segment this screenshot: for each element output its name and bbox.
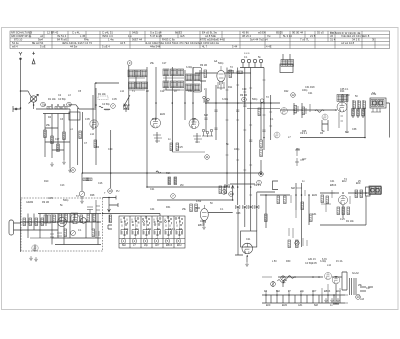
svg-text:EF9: EF9: [266, 304, 271, 307]
svg-text:5 oE 4: 5 oE 4: [102, 45, 110, 49]
svg-text:C o 4L: C o 4L: [72, 31, 80, 35]
svg-text:5o4 44 7w2 o4: 5o4 44 7w2 o4: [250, 38, 268, 42]
svg-text:w6 4: w6 4: [12, 45, 18, 49]
svg-text:500p: 500p: [218, 62, 224, 65]
svg-text:C13: C13: [60, 184, 65, 187]
svg-text:AF7: AF7: [302, 158, 307, 161]
svg-text:EM4: EM4: [160, 113, 166, 116]
svg-text:R30: R30: [286, 260, 291, 263]
svg-text:7w: 7w: [267, 34, 270, 38]
svg-text:EBC3: EBC3: [324, 290, 331, 293]
svg-text:EM4: EM4: [282, 304, 288, 307]
svg-text:AF7: AF7: [155, 244, 160, 247]
svg-text:EBC3: EBC3: [198, 224, 205, 227]
svg-text:GRAM: GRAM: [26, 201, 33, 204]
svg-text:C48: C48: [236, 212, 241, 215]
svg-text:6k8: 6k8: [291, 187, 296, 190]
svg-text:R9 1M: R9 1M: [240, 94, 247, 97]
svg-text:7E 51 4: 7E 51 4: [57, 34, 67, 38]
svg-text:C17: C17: [366, 287, 371, 290]
svg-text:S a 21 o4: S a 21 o4: [150, 31, 162, 35]
svg-text:5 47 E w5: 5 47 E w5: [150, 34, 162, 38]
svg-text:20p: 20p: [144, 244, 149, 247]
svg-text:3I: 3I: [372, 38, 374, 42]
svg-text:R1 10k: R1 10k: [346, 220, 354, 223]
svg-text:2M: 2M: [180, 184, 183, 187]
svg-text:12: 12: [291, 93, 295, 97]
svg-text:o4 8 54E: o4 8 54E: [205, 34, 216, 38]
svg-text:44 5w: 44 5w: [70, 45, 77, 49]
svg-text:C31 R18: C31 R18: [305, 86, 315, 89]
svg-text:C17: C17: [162, 62, 167, 65]
svg-text:34 2 E: 34 2 E: [352, 38, 360, 42]
svg-text:7 o6 7L: 7 o6 7L: [300, 38, 309, 42]
svg-text:R31: R31: [166, 206, 171, 209]
svg-text:E4 o5 9L 3w: E4 o5 9L 3w: [202, 31, 217, 35]
svg-text:38 u5 4: 38 u5 4: [242, 34, 251, 38]
svg-text:R1 10k: R1 10k: [48, 98, 56, 101]
svg-text:L 50: L 50: [272, 260, 277, 263]
svg-text:6k8: 6k8: [314, 304, 319, 307]
svg-text:4u5: 4u5: [180, 34, 185, 38]
svg-text:04(5): 04(5): [132, 31, 138, 35]
svg-text:85 05: 85 05: [276, 31, 283, 35]
svg-text:470k: 470k: [146, 228, 152, 231]
svg-text:AZ1: AZ1: [298, 304, 303, 307]
svg-text:R14: R14: [166, 172, 171, 175]
svg-text:o5: o5: [330, 34, 333, 38]
svg-text:5w4: 5w4: [38, 38, 43, 42]
svg-text:R9 1M: R9 1M: [200, 64, 207, 67]
svg-text:500p: 500p: [252, 98, 258, 101]
svg-text:873 10: 873 10: [14, 38, 23, 42]
svg-text:C41: C41: [330, 180, 335, 183]
svg-text:55 o5: 55 o5: [317, 31, 324, 35]
svg-text:0.05: 0.05: [312, 262, 317, 265]
svg-text:R28: R28: [90, 194, 95, 197]
svg-text:PU: PU: [116, 190, 120, 193]
svg-text:7E51 4 C: 7E51 4 C: [102, 34, 113, 38]
svg-text:6.3V: 6.3V: [322, 258, 327, 261]
svg-text:EBC3: EBC3: [166, 244, 173, 247]
svg-text:100p: 100p: [234, 148, 240, 151]
svg-text:R25: R25: [302, 130, 307, 133]
svg-text:8k2: 8k2: [276, 290, 281, 293]
svg-text:C16: C16: [98, 182, 103, 185]
svg-text:0.05: 0.05: [112, 98, 117, 101]
svg-text:12 ER 42: 12 ER 42: [47, 31, 59, 35]
svg-text:C o4L 51: C o4L 51: [102, 31, 113, 35]
svg-text:R4u: R4u: [84, 38, 89, 42]
svg-text:L 45: L 45: [80, 34, 86, 38]
svg-text:C9 0.1: C9 0.1: [254, 184, 262, 187]
svg-text:1 4w: 1 4w: [108, 38, 114, 42]
svg-text:C44: C44: [150, 208, 155, 211]
svg-text:0.25: 0.25: [178, 146, 183, 149]
svg-text:3-30p: 3-30p: [222, 98, 229, 101]
svg-text:44 5: 44 5: [120, 41, 126, 45]
svg-text:56E7 44: 56E7 44: [132, 38, 143, 42]
svg-text:31 4: 31 4: [330, 38, 336, 42]
svg-text:4E5L A3C4L 34A7 C4 73: 4E5L A3C4L 34A7 C4 73: [62, 41, 92, 45]
svg-text:AZ1 4V: AZ1 4V: [308, 258, 316, 261]
svg-text:NR SCHALTUNG: NR SCHALTUNG: [11, 31, 32, 35]
svg-text:C21: C21: [308, 92, 313, 95]
svg-text:C4 50p: C4 50p: [58, 98, 66, 101]
svg-text:EF9: EF9: [152, 118, 157, 121]
svg-text:44w 544: 44w 544: [150, 45, 161, 49]
svg-text:14: 14: [229, 192, 233, 196]
svg-text:9E 0E 44: 9E 0E 44: [292, 31, 304, 35]
svg-text:AZ1: AZ1: [192, 118, 197, 121]
svg-text:C9 0.1: C9 0.1: [168, 228, 176, 231]
svg-text:11: 11: [205, 155, 208, 159]
svg-text:C19: C19: [242, 88, 247, 91]
svg-text:84 R w5: 84 R w5: [57, 38, 67, 42]
svg-text:4L 7: 4L 7: [202, 45, 208, 49]
svg-text:0.05: 0.05: [48, 197, 53, 200]
svg-text:R22: R22: [284, 90, 289, 93]
svg-text:ΔΔ: ΔΔ: [214, 60, 218, 63]
svg-text:470k: 470k: [196, 200, 202, 203]
svg-text:0.05: 0.05: [85, 118, 90, 121]
svg-text:R433 C 8o: R433 C 8o: [162, 38, 175, 42]
svg-text:6k8: 6k8: [204, 114, 209, 117]
svg-text:100p: 100p: [200, 220, 206, 223]
svg-text:w5 E4: w5 E4: [258, 31, 266, 35]
svg-text:5 oE: 5 oE: [40, 45, 46, 49]
svg-text:EBC3: EBC3: [330, 184, 337, 187]
svg-text:o u o: o u o: [244, 52, 250, 55]
svg-text:32+32: 32+32: [352, 272, 359, 275]
svg-text:L12: L12: [120, 90, 125, 93]
svg-text:3-30p: 3-30p: [186, 66, 193, 69]
svg-text:o13: o13: [360, 298, 365, 301]
svg-text:1 o: 1 o: [128, 34, 132, 38]
svg-text:C4 50p: C4 50p: [102, 103, 110, 106]
svg-text:C38: C38: [352, 128, 357, 131]
svg-text:4 4E: 4 4E: [266, 45, 272, 49]
svg-text:5L 3 44: 5L 3 44: [283, 34, 292, 38]
svg-text:C14: C14: [188, 90, 193, 93]
svg-text:4V 2A: 4V 2A: [336, 260, 343, 263]
svg-text:54 4e: 54 4e: [12, 41, 19, 45]
svg-text:EM4: EM4: [312, 194, 318, 197]
svg-text:21 5: 21 5: [310, 34, 316, 38]
svg-text:R1 10k: R1 10k: [98, 93, 106, 96]
svg-text:4L44 C4E3 54w 44C4 53A4 474 7E: 4L44 C4E3 54w 44C4 53A4 474 7E4 C44 E3w4…: [145, 41, 219, 45]
svg-text:5 44: 5 44: [232, 45, 238, 49]
svg-text:8k2: 8k2: [122, 244, 127, 247]
svg-text:GB COMP 3P 4L: GB COMP 3P 4L: [11, 34, 32, 38]
svg-text:7oE 2E1 24 C41 SEC 8: 7oE 2E1 24 C41 SEC 8: [341, 34, 370, 38]
svg-text:R14: R14: [124, 228, 129, 231]
svg-text:8E w3 54: 8E w3 54: [32, 41, 44, 45]
svg-text:AF7: AF7: [312, 290, 317, 293]
svg-text:EK2: EK2: [336, 290, 341, 293]
svg-text:R11: R11: [228, 86, 233, 89]
svg-text:R10: R10: [44, 180, 49, 183]
svg-text:8k2: 8k2: [345, 131, 350, 134]
svg-text:477E w18A6wE 44t5: 477E w18A6wE 44t5: [200, 38, 225, 42]
svg-text:EK2: EK2: [177, 244, 182, 247]
svg-text:C21: C21: [246, 238, 251, 241]
svg-text:u4: u4: [40, 34, 43, 38]
svg-text:L12: L12: [327, 264, 332, 267]
svg-text:C17: C17: [55, 138, 60, 141]
svg-text:o4 w1 44 8: o4 w1 44 8: [341, 41, 355, 45]
svg-text:2M: 2M: [135, 228, 138, 231]
svg-text:20p: 20p: [296, 148, 301, 151]
svg-text:C10: C10: [108, 148, 113, 151]
svg-text:15: 15: [259, 172, 263, 176]
svg-text:C12: C12: [160, 90, 165, 93]
svg-text:0.25: 0.25: [340, 218, 345, 221]
svg-text:10: 10: [108, 189, 112, 193]
svg-text:20p: 20p: [300, 290, 305, 293]
svg-text:8n E3: 8n E3: [175, 31, 183, 35]
svg-text:C35 0.1: C35 0.1: [340, 88, 349, 91]
svg-text:R9 1M: R9 1M: [42, 201, 49, 204]
svg-text:C21: C21: [150, 188, 155, 191]
svg-text:2M: 2M: [346, 94, 349, 97]
svg-text:L12: L12: [90, 133, 95, 136]
svg-text:500p: 500p: [63, 199, 69, 202]
svg-text:AZ1: AZ1: [312, 213, 317, 216]
svg-text:45 86: 45 86: [242, 31, 249, 35]
